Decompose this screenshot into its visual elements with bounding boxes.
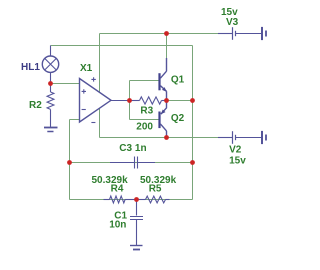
svg-text:R3: R3 bbox=[140, 105, 153, 116]
svg-text:200: 200 bbox=[136, 122, 153, 133]
svg-text:R2: R2 bbox=[29, 100, 42, 111]
svg-text:C3: C3 bbox=[119, 143, 132, 154]
svg-text:Q1: Q1 bbox=[171, 75, 185, 86]
svg-text:R4: R4 bbox=[111, 183, 124, 194]
svg-text:HL1: HL1 bbox=[21, 62, 40, 73]
svg-text:15v: 15v bbox=[229, 155, 246, 166]
svg-text:1n: 1n bbox=[135, 143, 147, 154]
svg-text:10n: 10n bbox=[109, 220, 126, 231]
svg-text:V2: V2 bbox=[229, 144, 242, 155]
svg-text:V3: V3 bbox=[226, 17, 239, 28]
svg-text:R5: R5 bbox=[149, 183, 162, 194]
svg-text:Q2: Q2 bbox=[171, 113, 185, 124]
svg-text:X1: X1 bbox=[80, 63, 93, 74]
